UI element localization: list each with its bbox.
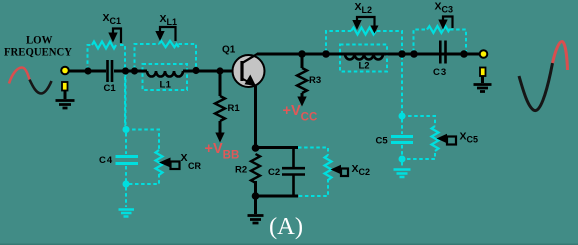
wire L1 to Q1 base xyxy=(183,70,239,73)
reactance box X_C2 dashed edges around C2 xyxy=(298,148,328,156)
ground below R2/C2 xyxy=(248,216,264,224)
arrow R1 to -VBB xyxy=(215,133,224,143)
wire C2 top branch xyxy=(256,146,299,149)
arrow for X_CR xyxy=(159,158,180,170)
node at R3 branch xyxy=(298,50,306,58)
node at R2 bottom xyxy=(252,192,260,200)
dashed box around L2 xyxy=(340,45,387,72)
svg-text:L2: L2 xyxy=(359,61,370,72)
capacitor C3 plates xyxy=(440,41,445,64)
output ground lead xyxy=(481,76,484,83)
input terminal xyxy=(61,67,69,75)
input ground terminal post xyxy=(62,82,68,91)
node at L2 right xyxy=(398,50,406,58)
svg-text:L1: L1 xyxy=(160,80,172,91)
wire R2 to ground node xyxy=(254,181,257,196)
node (cyan) C5 bottom xyxy=(399,156,406,163)
ground below input terminal xyxy=(56,101,75,109)
wire R1 to VBB arrow xyxy=(219,121,222,134)
inductor L2 xyxy=(345,54,383,60)
node at L1 left xyxy=(131,67,138,74)
wire C4 to ground (dashed) xyxy=(125,187,127,207)
arrow for X_C1 xyxy=(108,29,121,44)
wire C2 bottom branch xyxy=(256,195,299,198)
inductor L1 xyxy=(147,71,183,77)
svg-text:R3: R3 xyxy=(309,75,321,86)
output ground terminal post xyxy=(480,68,486,77)
wire input to C1 xyxy=(68,70,106,73)
output terminal xyxy=(480,50,488,58)
reactance box X_L1 dashed edges xyxy=(135,44,160,69)
reactance box X_C3 dashed edges xyxy=(414,30,427,53)
input waveform red part xyxy=(9,68,30,84)
capacitor C4 plates xyxy=(116,157,139,164)
capacitor C5 plates xyxy=(391,137,413,143)
ground below C5 (cyan) xyxy=(394,170,411,178)
output waveform red part xyxy=(553,42,568,71)
node at C1 right xyxy=(122,67,129,74)
svg-text:R2: R2 xyxy=(235,165,247,176)
resistor R3 zigzag xyxy=(297,68,307,93)
node (cyan) C4 bottom xyxy=(123,181,130,188)
reactance zigzag X_L1 xyxy=(159,41,179,47)
wire R3 branch xyxy=(301,56,304,68)
resistor R2 zigzag xyxy=(251,154,260,183)
ground below C4 (cyan) xyxy=(119,210,135,217)
wire emitter down xyxy=(254,86,257,148)
reactance zigzag X_C5 (vertical) xyxy=(432,126,439,151)
wire L2 junction down to C5 (dashed) xyxy=(401,56,403,113)
collector rail xyxy=(257,53,479,56)
reactance box X_C1 dashed edges xyxy=(88,45,93,70)
svg-text:C5: C5 xyxy=(376,136,389,147)
reactance zigzag X_CR (vertical) xyxy=(156,150,163,175)
reactance zigzag X_C3 xyxy=(427,26,450,33)
arrow R3 to +VCC xyxy=(297,97,306,107)
node at C3 left box edge xyxy=(410,50,418,58)
wire node to ground xyxy=(254,196,257,214)
svg-text:R1: R1 xyxy=(228,103,241,114)
resistor R1 zigzag xyxy=(215,96,225,121)
svg-text:Q1: Q1 xyxy=(222,45,236,56)
arrow for X_C5 xyxy=(437,134,457,145)
capacitor C1 plates xyxy=(108,60,113,82)
arrow for X_L1 xyxy=(155,27,175,41)
reactance box X_L2 dashed edges xyxy=(326,31,351,52)
wire R3 to VCC arrow xyxy=(301,93,304,98)
output waveform black part xyxy=(519,63,553,111)
input waveform black part xyxy=(30,80,52,94)
node on wire at C1 left xyxy=(84,67,91,74)
ground below output terminal xyxy=(474,85,492,92)
svg-text:C4: C4 xyxy=(99,155,113,166)
svg-text:(A): (A) xyxy=(269,213,303,240)
reactance box X_CR dashed edges around C4 xyxy=(126,130,159,151)
svg-text:FREQUENCY: FREQUENCY xyxy=(4,47,73,59)
arrow for X_C3 xyxy=(438,17,452,30)
node at C3 right xyxy=(460,50,468,58)
capacitor C5 stubs (dashed) xyxy=(401,119,403,156)
node at L1 right xyxy=(192,67,199,74)
dashed box around L1 xyxy=(143,64,188,90)
svg-text:C2: C2 xyxy=(268,167,280,178)
svg-text:C1: C1 xyxy=(104,83,117,94)
svg-text:C3: C3 xyxy=(433,67,447,78)
capacitor C2 stubs xyxy=(292,148,295,197)
node (cyan) C5 top xyxy=(399,113,406,120)
node at L2 left xyxy=(322,50,330,58)
reactance zigzag X_C1 xyxy=(92,42,116,49)
svg-text:LOW: LOW xyxy=(26,35,53,47)
reactance zigzag X_L2 xyxy=(351,28,376,35)
node at R1 branch xyxy=(216,67,223,74)
reactance box X_C5 dashed edges around C5 xyxy=(402,116,435,126)
arrow for X_L2 xyxy=(352,17,378,34)
wire C5 to ground (dashed) xyxy=(401,162,403,167)
wire C1 junction down to C4 (dashed) xyxy=(125,73,127,126)
input ground lead xyxy=(64,90,67,99)
reactance zigzag X_C2 (vertical) xyxy=(325,155,332,180)
arrow for X_C2 xyxy=(331,165,349,176)
transistor Q1 xyxy=(233,54,265,88)
capacitor C2 plates xyxy=(282,168,305,174)
wire C1 to L1 xyxy=(114,70,147,73)
node at emitter/R2 top xyxy=(252,144,260,152)
capacitor C4 stubs (dashed) xyxy=(125,133,127,154)
wire R1 branch xyxy=(219,73,222,96)
node (cyan) C4 top xyxy=(123,126,130,133)
